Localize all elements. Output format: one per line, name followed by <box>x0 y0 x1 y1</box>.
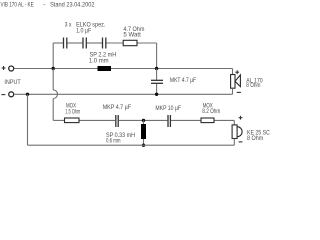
svg-text:1.0 mm: 1.0 mm <box>89 58 109 65</box>
speaker AL 170 box <box>231 75 235 89</box>
svg-text:3 x: 3 x <box>65 22 72 29</box>
junction dot C <box>26 93 29 96</box>
resistor MOX 1.5 Ohm <box>65 118 80 123</box>
junction dot D <box>155 93 158 96</box>
plus input terminal <box>9 66 14 71</box>
svg-text:MKT 4.7 µF: MKT 4.7 µF <box>170 77 196 84</box>
speaker KE 25 SC dome <box>237 127 242 137</box>
wire bottom rail <box>28 144 235 146</box>
speaker AL 170 cone <box>235 75 240 87</box>
plus input sign <box>2 66 6 70</box>
junction dot F <box>142 144 145 147</box>
svg-text:INPUT: INPUT <box>4 79 20 86</box>
wire top branch segments y=43 <box>53 42 156 44</box>
svg-text:8.2 Ohm: 8.2 Ohm <box>202 108 220 115</box>
minus input terminal <box>9 92 14 97</box>
capacitor C2 plates <box>83 38 86 49</box>
wire plus rail <box>14 68 233 70</box>
capacitor C3 plates <box>103 38 106 49</box>
resistor MOX 8.2 Ohm <box>201 118 214 123</box>
junction dot B <box>155 67 158 70</box>
svg-text:5 Watt: 5 Watt <box>123 32 141 39</box>
capacitor MKT 4.7uF plates <box>151 80 163 83</box>
KE plus sign <box>239 116 243 120</box>
KE minus sign <box>239 141 243 143</box>
inductor SP 2.2 mH <box>98 66 112 71</box>
svg-text:MKP 10 µF: MKP 10 µF <box>155 105 181 112</box>
svg-text:1.5 Ohm: 1.5 Ohm <box>65 109 80 116</box>
wire AL bottom lead <box>232 88 234 94</box>
wire KE top lead <box>233 120 235 125</box>
capacitor MKP 10uF plates <box>168 115 170 127</box>
junction dot E <box>142 119 145 122</box>
wire left bottom vertical <box>27 94 29 145</box>
svg-text:-: - <box>43 2 45 9</box>
resistor 4.7 Ohm 5 Watt <box>123 40 137 45</box>
wire KE bottom lead <box>233 139 235 146</box>
inductor SP 0.33 mH <box>141 124 146 139</box>
junction dot A <box>52 67 55 70</box>
inductor SP 0.33 mH leads <box>143 120 145 145</box>
wire mid branch segments y=120.4 <box>53 119 234 121</box>
capacitor MKT 4.7uF leads <box>156 69 158 95</box>
AL minus sign <box>237 91 241 93</box>
speaker KE 25 SC box <box>232 125 237 139</box>
capacitor C1 plates <box>64 38 67 49</box>
svg-text:1.0 µF: 1.0 µF <box>76 27 91 34</box>
svg-text:VIB 170 AL - KE: VIB 170 AL - KE <box>1 2 35 9</box>
svg-text:8 Ohm: 8 Ohm <box>246 82 260 89</box>
svg-text:Stand 23.04.2002: Stand 23.04.2002 <box>50 2 95 9</box>
wire vertical right top branch <box>156 43 158 69</box>
wire AL top lead <box>232 69 234 75</box>
wire minus rail <box>14 93 233 95</box>
svg-text:8 Ohm: 8 Ohm <box>247 135 264 142</box>
AL plus sign <box>235 70 239 74</box>
wire vertical left top branch <box>52 43 54 69</box>
minus input sign <box>1 94 5 96</box>
svg-text:0.6 mm: 0.6 mm <box>106 138 121 145</box>
svg-text:MKP 4.7 µF: MKP 4.7 µF <box>103 104 131 111</box>
wire main vertical with hop <box>53 69 57 121</box>
capacitor MKP 4.7uF plates <box>116 115 118 127</box>
